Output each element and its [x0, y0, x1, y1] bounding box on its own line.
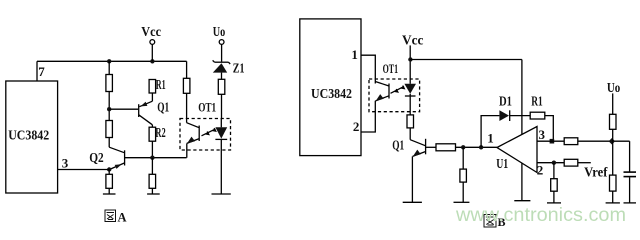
wire U1 gnd: [521, 163, 523, 201]
svg-text:Vref: Vref: [584, 165, 608, 180]
resistor R2 (left): [151, 125, 153, 127]
svg-text:Q1: Q1: [392, 138, 404, 153]
wire Q2 base rail: [125, 157, 187, 159]
pin 7 stub wire: [36, 61, 38, 81]
wire pin3 net: [537, 140, 564, 142]
optocoupler OT1 (left) box: [180, 119, 231, 151]
svg-text:R2: R2: [155, 125, 165, 140]
svg-text:OT1: OT1: [383, 61, 399, 76]
ground (capacitor): [624, 202, 637, 204]
transistor Q1 (right, NPN): [425, 139, 427, 155]
resistor RF (under Z1): [218, 79, 225, 94]
svg-text:2: 2: [353, 119, 360, 134]
ground (divider): [454, 201, 470, 203]
svg-text:R1: R1: [531, 93, 543, 108]
resistor R1 (right): [530, 112, 545, 119]
Vcc terminal (left): [150, 40, 155, 45]
resistor RD (under R2 node): [151, 158, 153, 175]
node divider junction: [461, 145, 465, 149]
node pin3 junction: [107, 167, 111, 171]
resistor RG (under LED right): [407, 115, 414, 128]
wire pin 1: [361, 55, 375, 83]
transistor Q1 (PNP): [138, 104, 140, 117]
svg-text:1: 1: [351, 47, 358, 62]
resistor RJ (pin3): [564, 138, 578, 145]
wire RE to optocoupler: [186, 93, 188, 122]
wire Vcc to rail: [151, 44, 153, 61]
resistor RB (left divider bottom): [106, 121, 113, 138]
svg-text:R1: R1: [156, 77, 166, 92]
wire R1 to pin3 node: [545, 116, 554, 142]
node pin2 junction: [552, 161, 556, 165]
OT1 LED (right): [404, 84, 416, 94]
wire base rail to U1: [456, 146, 498, 148]
wire pin 2: [361, 101, 375, 132]
ground (Uo divider): [606, 202, 620, 204]
svg-text:Vcc: Vcc: [402, 33, 423, 48]
label 图B glyph: [484, 215, 496, 228]
optocoupler OT1 (right) box: [369, 79, 420, 112]
OT1 light arrows (right): [391, 86, 405, 93]
wire RA to RB: [108, 92, 110, 121]
wire corner down to R3 chain: [186, 61, 188, 78]
svg-text:UC3842: UC3842: [311, 86, 352, 101]
svg-text:Z1: Z1: [233, 60, 245, 75]
resistor RE (OT1 collector chain): [183, 78, 190, 93]
resistor RK (pin2/Vref): [564, 159, 578, 166]
wire Q1 base: [109, 108, 138, 110]
wire pin2 net: [537, 162, 564, 164]
zener Z1: [215, 61, 229, 63]
capacitor C: [629, 141, 631, 172]
svg-text:1: 1: [487, 131, 494, 146]
diode D1: [499, 110, 509, 121]
svg-text:UC3842: UC3842: [8, 128, 49, 143]
node D1 junction: [479, 145, 483, 149]
svg-text:D1: D1: [499, 93, 512, 108]
wire pin7 top rail: [37, 60, 187, 62]
svg-text:Uo: Uo: [607, 80, 621, 95]
resistor RI (divider): [462, 147, 464, 169]
svg-text:OT1: OT1: [198, 100, 216, 115]
svg-text:2: 2: [537, 163, 544, 178]
ground (pin2 divider): [547, 202, 561, 204]
node R2 bottom junction: [150, 156, 154, 160]
Uo terminal (left): [219, 40, 224, 45]
OT1 LED (left): [215, 127, 227, 138]
OT1 phototransistor (right): [388, 84, 390, 99]
svg-text:U1: U1: [496, 156, 508, 171]
node pin3 square: [550, 139, 555, 144]
wire pin 3: [58, 169, 110, 171]
resistor RH (Q1 base): [436, 144, 456, 151]
node junction at x152 top: [150, 59, 154, 63]
OT1 light arrows: [202, 129, 216, 136]
svg-text:Q2: Q2: [89, 150, 104, 165]
svg-text:www.cntronics.com: www.cntronics.com: [455, 204, 626, 226]
svg-text:7: 7: [38, 64, 45, 79]
svg-text:A: A: [118, 211, 127, 225]
OT1 phototransistor: [198, 126, 200, 142]
svg-text:3: 3: [62, 156, 69, 171]
wire LED cathode down: [220, 139, 222, 194]
wire D1 branch up: [481, 116, 499, 148]
ground (Q1 emitter): [403, 201, 422, 203]
resistor R1 (left): [149, 80, 156, 94]
ground (under R2 node): [147, 193, 160, 195]
wire R1 lead down: [151, 93, 153, 101]
resistor RA (left divider top): [108, 61, 110, 74]
transistor Q2 (PNP): [124, 150, 126, 165]
resistor RC (under divider): [108, 170, 110, 175]
wire RB to Q2 collector: [108, 138, 110, 148]
svg-text:Q1: Q1: [157, 100, 169, 115]
svg-text:Uo: Uo: [213, 24, 226, 39]
node junction at x109 top: [107, 59, 111, 63]
Uo chain (right): [612, 93, 614, 114]
node Q1 base junction: [107, 107, 111, 111]
wire R2 to base rail: [151, 141, 153, 158]
label 图A glyph: [105, 210, 116, 222]
wire U1 Vcc: [521, 60, 523, 135]
resistor RL (under pin2 node): [553, 163, 555, 179]
ground (left divider): [103, 193, 116, 195]
node Uo junction: [609, 138, 616, 145]
Vcc wire (right): [409, 45, 411, 83]
op-amp U1: [497, 127, 537, 173]
svg-text:Vcc: Vcc: [141, 24, 161, 39]
ground (U1): [514, 200, 530, 202]
IC UC3842 (right) box: [300, 19, 361, 156]
ground (LED): [212, 193, 231, 195]
IC UC3842 (left) box: [6, 81, 58, 193]
svg-text:3: 3: [539, 127, 546, 142]
wire Q1 base: [426, 146, 436, 148]
